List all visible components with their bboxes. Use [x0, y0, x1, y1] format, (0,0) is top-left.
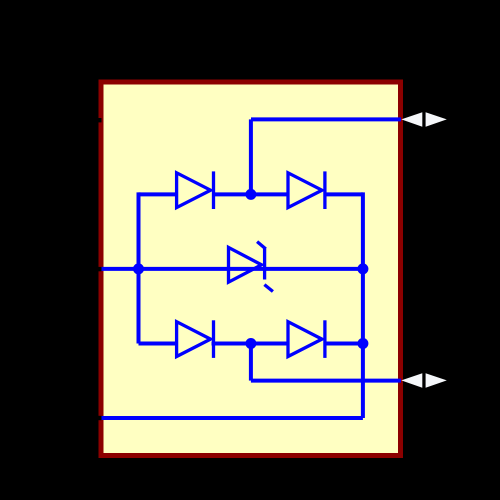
- pin stub bottom-left: [98, 416, 101, 420]
- wire bottom row middle segment: [212, 342, 289, 346]
- macro body box U1: [101, 82, 401, 456]
- wire left rail: [137, 192, 141, 343]
- junction middle row right node: [357, 263, 368, 274]
- junction top row node: [245, 189, 256, 200]
- wire right rail: [361, 192, 365, 418]
- wire top row middle segment: [212, 192, 289, 196]
- pin stub middle-left: [98, 267, 101, 271]
- wire bottom return net: [101, 416, 363, 420]
- wire top row left segment: [139, 192, 179, 196]
- pin stub top-left: [98, 118, 101, 122]
- junction middle row left node: [133, 263, 144, 274]
- diode D4 bottom-right: [288, 320, 325, 358]
- port arrow top bidirectional: [401, 112, 447, 126]
- junction bottom row node: [245, 338, 256, 349]
- port arrow bottom bidirectional: [401, 373, 447, 387]
- wire vertical junction to top row: [249, 119, 253, 194]
- wire top row right segment: [324, 192, 363, 196]
- diode D3 bottom-left: [177, 320, 214, 358]
- wire bottom row left segment: [139, 342, 178, 346]
- wire middle row input net: [101, 267, 363, 271]
- diode D1 top-left: [177, 171, 214, 209]
- wire bottom row right segment: [324, 342, 363, 346]
- wire lower output net: [251, 379, 401, 383]
- wire vertical junction to lower net: [249, 344, 253, 381]
- diode D2 top-right: [288, 171, 325, 209]
- wire top output net: [251, 117, 401, 121]
- junction bottom row right node: [357, 338, 368, 349]
- zener diode D5 middle: [229, 242, 273, 292]
